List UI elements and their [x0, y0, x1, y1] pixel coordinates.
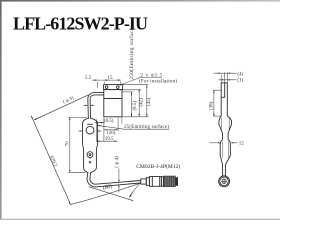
svg-text:70: 70 [66, 141, 71, 147]
svg-text:670.7: 670.7 [48, 155, 57, 168]
dim (4) [214, 72, 237, 74]
dim 5.5/15 line [92, 79, 121, 81]
RIGHT VIEW [214, 72, 237, 82]
ext verticals (4)/(1) [220, 75, 222, 83]
unit width arrows [78, 130, 82, 132]
cable top inner [90, 95, 104, 119]
ext line plate right [120, 82, 122, 85]
unit slot [87, 123, 93, 125]
ext line cable center [96, 82, 98, 88]
dim line B 670.7 [31, 116, 70, 204]
unit tick below circle 2 [89, 158, 91, 159]
head mounting plate [104, 85, 123, 90]
svg-text:(42): (42) [140, 98, 145, 107]
svg-text:(45): (45) [147, 97, 152, 106]
connector ring end view [219, 176, 230, 187]
head edge bar [221, 83, 227, 116]
svg-text:19.5: 19.5 [105, 137, 114, 142]
head body rect [104, 90, 122, 117]
svg-text:(8.5): (8.5) [104, 119, 114, 124]
dim (8.5) bottom [95, 122, 104, 124]
leader line D [89, 187, 134, 201]
cable bottom inner [90, 172, 141, 184]
bulge 1 (strain relief) [219, 116, 232, 140]
svg-text:(For installation): (For installation) [139, 79, 177, 84]
svg-text:( φ 4): ( φ 4) [115, 156, 120, 168]
svg-text:(4): (4) [237, 72, 243, 77]
dim (8.5) right [131, 93, 133, 117]
head edge notch [221, 83, 225, 98]
bulge 2 (12 section) [220, 140, 230, 176]
svg-text:(38): (38) [209, 101, 214, 110]
cable bottom outer [87, 172, 141, 187]
dim (42) [138, 89, 140, 116]
connector ferrule [141, 179, 147, 184]
connector step [146, 178, 149, 186]
leader line A [34, 95, 88, 120]
svg-text:250(Emitting surface): 250(Emitting surface) [128, 26, 135, 80]
curved leader to connector [131, 182, 142, 195]
border frame [0, 0, 2, 220]
dim (26) [104, 129, 118, 131]
leader line C [70, 183, 141, 205]
connector body [149, 177, 161, 187]
dim (45) [146, 85, 148, 116]
svg-text:(1): (1) [237, 78, 243, 83]
connector M12 side view [141, 177, 164, 187]
svg-text:(26): (26) [107, 131, 116, 136]
unit plus mark [89, 161, 92, 164]
dim (38) [213, 89, 222, 91]
hole H2 [117, 86, 120, 89]
connector knurled nut [163, 176, 175, 187]
dim (1) [219, 79, 237, 81]
ext verticals below head [96, 119, 98, 142]
svg-text:CM02B-J-4P(M12): CM02B-J-4P(M12) [136, 163, 180, 170]
hole H1 [105, 86, 108, 89]
cable top outer [88, 93, 104, 119]
connector groove [161, 177, 163, 186]
svg-text:LFL-612SW2-P-IU: LFL-612SW2-P-IU [13, 14, 148, 34]
inline unit body [83, 118, 89, 172]
ext line plate left [103, 82, 105, 85]
connector tip [175, 177, 178, 186]
unit circle 1 [86, 126, 94, 134]
ext lines right of head [123, 84, 149, 86]
dim 70 [68, 116, 87, 118]
svg-text:15: 15 [108, 76, 114, 81]
svg-text:(8.5): (8.5) [133, 101, 138, 111]
head mid line [104, 98, 122, 100]
unit circle 2 [87, 152, 93, 158]
svg-text:5.5: 5.5 [85, 76, 92, 81]
svg-text:12: 12 [239, 142, 245, 147]
dim 12 [210, 142, 238, 144]
dim 19.5 [97, 140, 118, 142]
leader to holes [140, 76, 162, 78]
